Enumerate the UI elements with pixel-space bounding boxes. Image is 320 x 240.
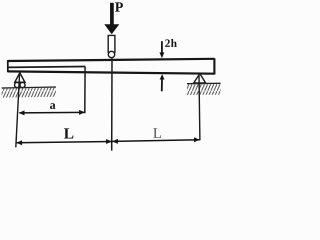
dimension a left head — [19, 110, 25, 115]
dimension a right head — [79, 110, 85, 115]
beam right edge — [213, 58, 215, 74]
left ground hatch — [2, 87, 56, 98]
label 2h — [165, 39, 170, 46]
label a — [50, 103, 55, 109]
right ground hatch — [187, 84, 221, 95]
dimension L right line — [112, 140, 199, 142]
crack mid-plane line — [8, 66, 85, 69]
beam bottom edge — [8, 71, 215, 73]
right support extension line — [198, 75, 201, 140]
dimension a line — [19, 111, 84, 114]
left support roller circle 2 — [20, 82, 25, 87]
force arrow P shaft — [110, 3, 114, 25]
indenter block — [108, 35, 115, 53]
beam left edge — [7, 60, 9, 72]
label L right — [153, 128, 161, 138]
dimension L left line — [17, 142, 112, 143]
right ground line — [187, 82, 221, 84]
beam top edge — [8, 59, 215, 61]
left ground line — [2, 87, 56, 88]
crack tip extension line — [84, 67, 86, 114]
dimension L right head east — [194, 137, 200, 142]
right support triangle — [194, 74, 206, 83]
label L left — [64, 128, 73, 138]
left support extension line — [16, 74, 20, 148]
centre extension line — [111, 58, 113, 150]
dimension arrow 2h upper line — [161, 41, 163, 53]
label P — [115, 2, 123, 11]
left support triangle — [15, 73, 25, 82]
dimension L right head west — [112, 139, 118, 144]
force arrow P head — [104, 24, 119, 34]
dimension L left head west — [16, 140, 22, 145]
left support roller circle 1 — [15, 82, 20, 87]
dimension L left head east — [106, 139, 112, 144]
indenter roller circle — [108, 51, 114, 57]
dimension arrow 2h upper head — [160, 52, 165, 58]
dimension arrow 2h lower head — [160, 74, 165, 79]
dimension arrow 2h lower line — [161, 79, 163, 91]
